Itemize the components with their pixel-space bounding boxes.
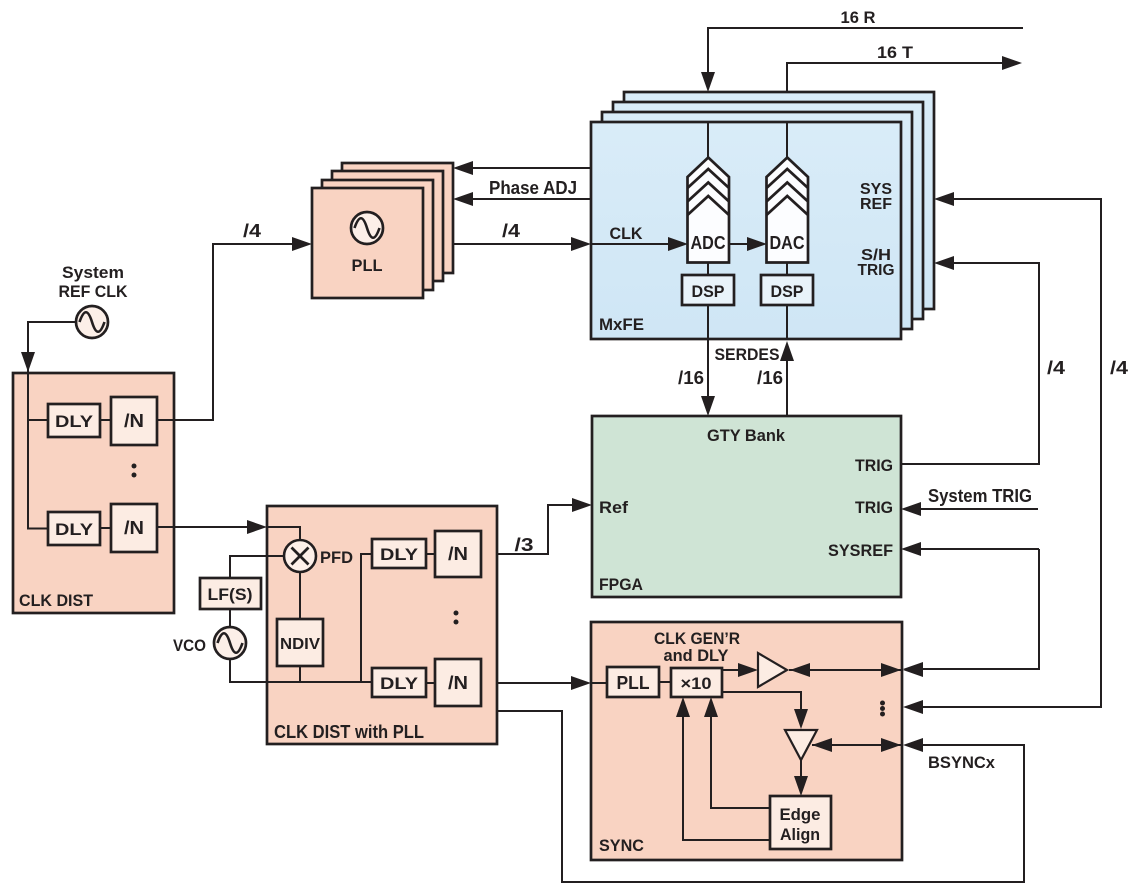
wire FPGA TRIG to S/H TRIG (/4): [901, 256, 1065, 464]
wire x10 to inverter: [722, 692, 808, 729]
svg-text:SYNC: SYNC: [599, 836, 644, 855]
wire /N4 to SYNC PLL: [481, 676, 607, 690]
wire 16 R: [701, 8, 1023, 92]
svg-text:×10: ×10: [681, 674, 712, 693]
box NDIV: [277, 619, 323, 666]
wire CLK inside MxFE: [591, 224, 688, 251]
wire Phase ADJ upper: [453, 161, 591, 175]
block CLK DIST: [13, 373, 174, 613]
wire dots row to SYS REF (/4): [903, 192, 1128, 714]
svg-text:DLY: DLY: [55, 412, 94, 431]
wire DAC column top: [786, 122, 788, 158]
box SYNC PLL: [607, 667, 659, 697]
svg-text:/16: /16: [678, 368, 704, 388]
svg-text:TRIG: TRIG: [855, 498, 893, 517]
svg-text:FPGA: FPGA: [599, 575, 643, 594]
box x10: [671, 668, 722, 697]
component ADC: [688, 158, 730, 263]
wire entry to PFD: [267, 527, 300, 540]
box DSP 2: [761, 262, 813, 305]
svg-text:Ref: Ref: [599, 498, 628, 517]
box /N 3: [435, 531, 481, 577]
label SYS REF: [860, 181, 892, 213]
wire ADC column top: [707, 122, 709, 158]
block PLL stack layer 2: [322, 180, 433, 290]
wire LF(S) to VCO: [229, 609, 231, 628]
icon System REF CLK oscillator: [76, 306, 108, 338]
icon VCO oscillator: [173, 627, 246, 659]
svg-text:REF CLK: REF CLK: [59, 282, 129, 301]
svg-text:CLK: CLK: [610, 224, 644, 243]
svg-text:/4: /4: [502, 221, 520, 241]
svg-text:/4: /4: [1047, 358, 1065, 378]
svg-text:GTY Bank: GTY Bank: [707, 426, 786, 445]
box Edge Align: [770, 796, 831, 849]
svg-text:DSP: DSP: [771, 282, 804, 301]
wire NDIV bottom: [299, 666, 301, 682]
svg-text:LF(S): LF(S): [208, 585, 253, 604]
component PFD mixer: [284, 540, 353, 572]
wire ADC to DAC: [729, 237, 767, 251]
dots CLK DIST: [132, 464, 137, 478]
wire PFD to LF(S): [230, 556, 284, 578]
svg-text:TRIG: TRIG: [858, 262, 895, 279]
block FPGA / GTY Bank: [592, 416, 901, 597]
block PLL front: [312, 188, 423, 298]
component DAC: [767, 158, 809, 263]
wire Phase ADJ lower: [453, 178, 591, 206]
svg-text:and DLY: and DLY: [664, 646, 730, 665]
wire SERDES up (DAC /16): [715, 305, 795, 416]
svg-text:/N: /N: [124, 411, 144, 431]
block MxFE stack layer 4: [624, 92, 934, 309]
block SYNC: [591, 622, 902, 860]
label System REF CLK: [59, 263, 129, 301]
block PLL stack layer 3: [332, 171, 443, 281]
svg-text:CLK DIST with PLL: CLK DIST with PLL: [274, 722, 424, 742]
wire Edge Align feedback 2: [676, 697, 770, 840]
svg-text:PFD: PFD: [320, 548, 353, 567]
wire /N3 to FPGA Ref (/3): [481, 498, 592, 555]
svg-text:Phase ADJ: Phase ADJ: [489, 178, 577, 198]
inverter triangle: [785, 730, 817, 760]
svg-text:System: System: [62, 263, 124, 282]
svg-text:CLK DIST: CLK DIST: [19, 591, 94, 610]
wire Edge Align feedback 1: [704, 697, 770, 808]
box DLY 3: [372, 539, 426, 568]
svg-text:/4: /4: [1110, 358, 1128, 378]
svg-text:DLY: DLY: [55, 520, 94, 539]
label S/H TRIG: [858, 247, 895, 279]
svg-text:SERDES: SERDES: [715, 345, 780, 364]
svg-text:DLY: DLY: [380, 545, 419, 564]
wire DLY1 to /N1: [100, 419, 111, 421]
svg-text:/N: /N: [448, 544, 468, 564]
wire inverter row bidirectional (BSYNCx): [812, 738, 996, 772]
block PLL stack layer 4: [342, 163, 453, 273]
wire SYSREF loop: [901, 542, 1039, 676]
svg-text:REF: REF: [860, 196, 892, 213]
wire DLY3 to /N3: [426, 553, 435, 555]
wire /N2 to CLK DIST with PLL: [157, 520, 267, 534]
svg-text:Edge: Edge: [780, 805, 821, 824]
wire PLL to x10: [659, 681, 671, 683]
box /N 1: [111, 397, 157, 445]
svg-text:VCO: VCO: [173, 636, 206, 655]
svg-text:/3: /3: [515, 535, 534, 555]
arrow into CLK DIST top: [21, 352, 35, 372]
svg-text:16 T: 16 T: [877, 43, 914, 62]
svg-text:TRIG: TRIG: [855, 456, 893, 475]
svg-text:MxFE: MxFE: [599, 315, 644, 334]
box DLY 1: [48, 404, 100, 437]
svg-text:SYSREF: SYSREF: [828, 541, 893, 560]
dots SYNC: [880, 701, 885, 717]
wire SERDES down (ADC /16): [678, 305, 715, 416]
wire System TRIG: [901, 486, 1038, 516]
wire System REF CLK to CLK DIST: [28, 322, 75, 529]
box LF(S): [200, 578, 261, 609]
block CLK DIST with PLL: [267, 506, 497, 744]
svg-text:DAC: DAC: [770, 233, 805, 253]
wire PLL to MxFE (/4): [453, 221, 591, 251]
wire DLY4 to /N4: [426, 682, 435, 684]
box DLY 4: [372, 668, 426, 697]
wire VCO to distribution: [230, 659, 372, 683]
svg-text:System TRIG: System TRIG: [928, 486, 1032, 506]
box DSP 1: [682, 262, 734, 305]
svg-text:Align: Align: [780, 825, 820, 844]
svg-text:BSYNCx: BSYNCx: [928, 753, 996, 772]
block MxFE stack layer 2: [602, 112, 912, 329]
icon PLL oscillator: [351, 212, 383, 244]
wire /N1 to PLL (/4): [157, 221, 312, 420]
block MxFE stack layer 3: [613, 102, 923, 319]
svg-text:PLL: PLL: [617, 673, 650, 693]
svg-text:DSP: DSP: [692, 282, 725, 301]
svg-text:NDIV: NDIV: [280, 636, 320, 653]
svg-text:/4: /4: [243, 221, 261, 241]
svg-text:DLY: DLY: [380, 674, 419, 693]
wire 16 T: [787, 43, 1022, 92]
svg-text:/N: /N: [448, 673, 468, 693]
box DLY 2: [48, 512, 100, 545]
wire NDIV to PFD: [299, 571, 301, 619]
wire buffer row bidirectional: [789, 663, 923, 677]
svg-text:16 R: 16 R: [841, 8, 876, 27]
box /N 4: [435, 659, 481, 706]
svg-text:PLL: PLL: [352, 256, 383, 275]
block MxFE front: [591, 122, 901, 339]
buffer triangle: [758, 653, 787, 687]
wire DLY2 to /N2: [100, 527, 111, 529]
wire inverter to Edge Align: [794, 760, 808, 796]
box /N 2: [111, 504, 157, 552]
wire x10 to buffer: [722, 663, 758, 677]
svg-text:/N: /N: [124, 518, 144, 538]
svg-text:ADC: ADC: [691, 233, 726, 253]
dots CLK DIST with PLL: [454, 611, 459, 625]
wire BSYNCx loop from CLK DIST with PLL: [497, 711, 1024, 882]
wire branch to DLY3: [361, 554, 372, 682]
svg-text:/16: /16: [757, 368, 783, 388]
